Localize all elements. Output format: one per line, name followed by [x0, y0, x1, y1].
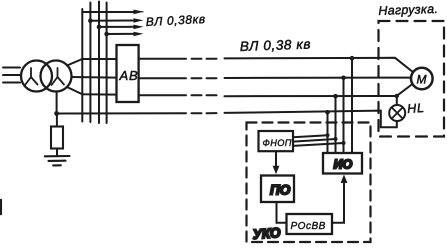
node tap A — [350, 56, 355, 61]
IO box — [323, 153, 362, 174]
line L2 to motor — [225, 77, 412, 79]
wire PO to ROsVV — [277, 202, 287, 223]
line L3 dashes — [192, 94, 217, 96]
line L1 dashes — [192, 58, 217, 60]
transformer T1 left winding — [21, 61, 52, 92]
svg-text:ФНОП: ФНОП — [263, 138, 292, 148]
wire ROsVV to IO — [332, 175, 347, 223]
wire: lamp top stub — [396, 96, 398, 105]
wire FNOP out 1 — [293, 135, 328, 137]
arrow FNOP to PO — [273, 151, 280, 174]
bus bar vertical 2 — [89, 3, 91, 123]
line L1 to motor — [225, 58, 413, 72]
line L1 solid from AB — [139, 58, 186, 60]
line L4 dashes — [192, 112, 217, 114]
svg-text:Нагрузка.: Нагрузка. — [378, 2, 438, 18]
line L3 solid from AB — [139, 94, 186, 96]
feeder arrow 1 — [82, 10, 143, 15]
svg-text:ПО: ПО — [270, 183, 291, 198]
wire FNOP out 3 — [293, 143, 344, 146]
lamp HL — [389, 105, 405, 121]
label: BL 0,38 kv (main line) — [240, 37, 312, 54]
node — [342, 141, 346, 145]
svg-text:ВЛ 0,38 кв: ВЛ 0,38 кв — [240, 37, 312, 54]
PO box — [261, 176, 294, 203]
tap wire phase C down — [335, 96, 337, 153]
svg-text:ИО: ИО — [334, 158, 353, 172]
breaker AB box — [117, 45, 139, 102]
wire: resistor to ground — [56, 149, 58, 157]
node tap B — [341, 76, 346, 81]
wire FNOP out 2 — [293, 139, 336, 142]
ROsVV box — [287, 214, 333, 234]
UKO box (dashed) — [247, 123, 371, 243]
feeder arrow 3 — [97, 25, 144, 30]
svg-text:РОсВВ: РОсВВ — [291, 221, 326, 232]
FNOP box — [259, 131, 294, 151]
line L2 solid from AB — [139, 77, 186, 79]
node: lamp tap on L3 — [395, 94, 399, 98]
tap wire phase A down — [351, 58, 353, 153]
line L3 to motor — [225, 84, 413, 96]
svg-text:УКО: УКО — [252, 225, 281, 242]
line L4 to load — [225, 111, 397, 128]
load box (dashed) — [379, 21, 445, 137]
ground — [45, 156, 70, 165]
resistor (grounding) — [51, 127, 63, 149]
line L4 neutral solid — [57, 112, 186, 114]
line L2 dashes — [192, 77, 217, 79]
node — [334, 137, 338, 141]
node — [326, 133, 330, 137]
wire: transformer to bus phase A — [67, 59, 117, 66]
bus bar vertical 1 — [81, 9, 83, 122]
motor M — [411, 68, 433, 90]
feeder arrow 4 — [104, 32, 143, 37]
bus bar vertical 3 — [98, 2, 100, 124]
wire: transformer to bus phase B — [72, 76, 117, 79]
HV supply stubs — [3, 68, 20, 83]
scan artifact left edge — [0, 200, 2, 214]
transformer T1 right winding — [41, 61, 72, 92]
feeder arrow 2 — [88, 18, 143, 23]
wire: neutral to resistor — [56, 114, 58, 127]
tap wire phase B down — [343, 78, 345, 153]
node: neutral junction — [54, 111, 59, 116]
label: BL 0,38kv (top feeders) — [145, 12, 206, 29]
tap wire neutral down — [327, 112, 329, 153]
bus bar vertical 4 — [106, 3, 108, 124]
svg-text:HL: HL — [407, 101, 426, 116]
wire: transformer neutral drop — [56, 92, 58, 114]
node tap N — [325, 110, 330, 115]
svg-text:АВ: АВ — [119, 68, 139, 83]
wire: transformer to bus phase C — [67, 87, 117, 95]
svg-text:М: М — [417, 73, 427, 87]
node tap C — [333, 94, 338, 99]
